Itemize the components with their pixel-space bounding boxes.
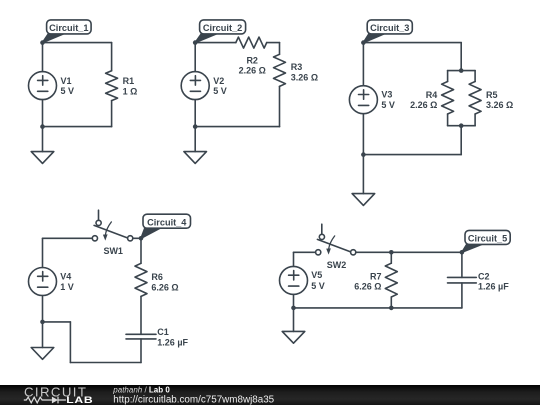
- wire: top rail R7 to C2: [391, 251, 462, 253]
- voltage source V2: [181, 72, 227, 100]
- label callout Circuit_2: [195, 20, 245, 43]
- wire: drop to circuit 3 bottom rail: [460, 126, 462, 155]
- wire: bottom route vertical: [69, 322, 71, 363]
- wire: R3 bottom lead: [279, 86, 281, 126]
- wire: circuit 2 top rail left: [195, 42, 236, 44]
- resistor R5: [469, 82, 513, 115]
- resistor R6: [135, 263, 179, 296]
- node: R7 bottom node: [389, 306, 394, 311]
- svg-text:pathanh / Lab 0: pathanh / Lab 0: [112, 386, 170, 395]
- wire: parallel bottom bus: [448, 125, 476, 127]
- svg-text:5 V: 5 V: [61, 86, 75, 96]
- wire: R6 top lead: [140, 238, 142, 263]
- svg-text:R4: R4: [426, 90, 438, 100]
- node: circuit 4 ground node: [40, 320, 45, 325]
- svg-text:6.26 Ω: 6.26 Ω: [354, 282, 381, 292]
- svg-text:SW2: SW2: [327, 260, 347, 270]
- node: parallel bottom node: [459, 123, 464, 128]
- wire: R7 top lead: [390, 252, 392, 263]
- wire: switch common to node: [133, 237, 141, 239]
- wire: circuit 4 bottom rail: [70, 362, 141, 364]
- wire: V2 bottom lead: [194, 100, 196, 127]
- wire: V5 bottom lead: [293, 294, 295, 308]
- wire: circuit 3 top rail: [363, 42, 461, 44]
- ground (circuit 5): [282, 308, 305, 343]
- wire: circuit 5 bottom rail: [294, 307, 462, 309]
- svg-text:R3: R3: [291, 62, 303, 72]
- svg-text:V2: V2: [213, 76, 224, 86]
- svg-text:Circuit_2: Circuit_2: [203, 23, 242, 33]
- resistor R3: [274, 54, 319, 86]
- wire: circuit 2 top rail right: [267, 42, 280, 44]
- wire: R4 top lead: [447, 71, 449, 82]
- svg-text:Circuit_5: Circuit_5: [468, 234, 507, 244]
- svg-text:R2: R2: [246, 55, 258, 65]
- wire: V5 top lead: [293, 252, 295, 266]
- ground (circuit 1): [31, 127, 54, 164]
- wire: circuit 1 top rail: [43, 42, 112, 44]
- wire: V2 top lead: [194, 43, 196, 72]
- label callout Circuit_5: [462, 230, 510, 252]
- svg-text:3.26 Ω: 3.26 Ω: [291, 72, 318, 82]
- voltage source V1: [29, 72, 75, 100]
- svg-text:1.26 µF: 1.26 µF: [478, 282, 509, 292]
- node: R7 top node: [389, 250, 394, 255]
- wire: C2 bottom lead: [461, 283, 463, 308]
- svg-text:V3: V3: [381, 90, 392, 100]
- CircuitLab logo: resistor-diode squiggle: [24, 397, 66, 404]
- svg-text:R5: R5: [486, 90, 498, 100]
- capacitor C1: [126, 327, 189, 348]
- wire: V1 bottom lead: [42, 100, 44, 127]
- node: circuit 2 ground node: [193, 124, 198, 129]
- svg-text:Circuit_4: Circuit_4: [147, 217, 187, 227]
- wire: C2 top lead: [461, 252, 463, 277]
- svg-text:5 V: 5 V: [381, 100, 395, 110]
- node: circuit 3 ground node: [361, 152, 366, 157]
- node: Circuit_2 top node: [193, 40, 198, 45]
- wire: R1 top lead: [111, 43, 113, 71]
- svg-text:C1: C1: [157, 327, 169, 337]
- svg-text:V5: V5: [311, 270, 322, 280]
- wire: R5 bottom lead: [474, 114, 476, 126]
- wire: V3 bottom lead: [362, 114, 364, 155]
- ground (circuit 3): [352, 155, 375, 206]
- resistor R2: [236, 37, 267, 75]
- wire: R5 top lead: [474, 71, 476, 82]
- wire: V4 bottom lead: [42, 296, 44, 322]
- svg-text:C2: C2: [478, 271, 490, 281]
- svg-text:1 Ω: 1 Ω: [123, 86, 138, 96]
- wire: parallel top bus: [448, 70, 476, 72]
- voltage source V5: [280, 266, 325, 294]
- wire: V3 top lead: [362, 43, 364, 86]
- svg-text:V1: V1: [61, 76, 72, 86]
- resistor R7: [354, 263, 397, 297]
- label callout Circuit_4: [141, 214, 191, 238]
- ground (circuit 2): [184, 127, 207, 164]
- svg-text:3.26 Ω: 3.26 Ω: [486, 100, 513, 110]
- wire: circuit 5 top rail to switch: [294, 251, 316, 253]
- svg-text:1 V: 1 V: [60, 282, 74, 292]
- node: circuit 5 ground node: [291, 306, 296, 311]
- wire: circuit 2 bottom rail: [195, 126, 279, 128]
- footer bar: [0, 385, 540, 405]
- wire: feed to parallel pair: [460, 43, 462, 71]
- svg-text:R1: R1: [123, 76, 135, 86]
- voltage source V3: [349, 86, 395, 114]
- resistor R4: [410, 82, 454, 115]
- wire: R4 bottom lead: [447, 114, 449, 126]
- wire: circuit 4 top rail to switch: [43, 237, 93, 239]
- label callout Circuit_3: [363, 20, 412, 43]
- svg-text:SW1: SW1: [103, 246, 123, 256]
- voltage source V4: [29, 268, 74, 296]
- node: Circuit_3 top node: [361, 40, 366, 45]
- wire: R7 bottom lead: [390, 297, 392, 308]
- node: circuit 4 switch output node: [139, 236, 144, 241]
- svg-text:1.26 µF: 1.26 µF: [157, 338, 188, 348]
- svg-text:R6: R6: [151, 272, 163, 282]
- switch SW2: [316, 224, 356, 270]
- svg-text:http://circuitlab.com/c757wm8w: http://circuitlab.com/c757wm8wj8a35: [113, 395, 274, 406]
- svg-text:5 V: 5 V: [311, 281, 325, 291]
- wire: C1 top lead: [140, 296, 142, 334]
- label callout Circuit_1: [43, 20, 92, 43]
- capacitor C2: [448, 271, 510, 291]
- svg-text:Circuit_3: Circuit_3: [370, 23, 409, 33]
- switch SW1: [92, 210, 133, 256]
- node: C2 top node: [460, 250, 465, 255]
- svg-text:5 V: 5 V: [213, 86, 227, 96]
- svg-text:Circuit_1: Circuit_1: [49, 23, 88, 33]
- resistor R1: [106, 71, 138, 101]
- svg-text:2.26 Ω: 2.26 Ω: [239, 66, 266, 76]
- wire: circuit 3 bottom rail: [363, 154, 461, 156]
- ground (circuit 4): [31, 322, 54, 359]
- svg-text:LAB: LAB: [66, 396, 93, 405]
- wire: switch to R7 node: [356, 251, 392, 253]
- wire: bottom route horizontal 1: [43, 321, 71, 323]
- wire: C1 bottom lead: [140, 339, 142, 363]
- svg-text:R7: R7: [370, 271, 382, 281]
- wire: R3 top lead: [279, 43, 281, 55]
- wire: circuit 1 bottom rail: [43, 126, 112, 128]
- svg-text:2.26 Ω: 2.26 Ω: [410, 100, 437, 110]
- wire: R1 bottom lead: [111, 101, 113, 127]
- svg-text:V4: V4: [60, 271, 71, 281]
- node: circuit 1 ground node: [40, 124, 45, 129]
- wire: V1 top lead: [42, 43, 44, 72]
- node: Circuit_1 top node: [40, 40, 45, 45]
- wire: V4 top lead: [42, 238, 44, 267]
- node: parallel top node: [459, 68, 464, 73]
- svg-text:6.26 Ω: 6.26 Ω: [151, 282, 178, 292]
